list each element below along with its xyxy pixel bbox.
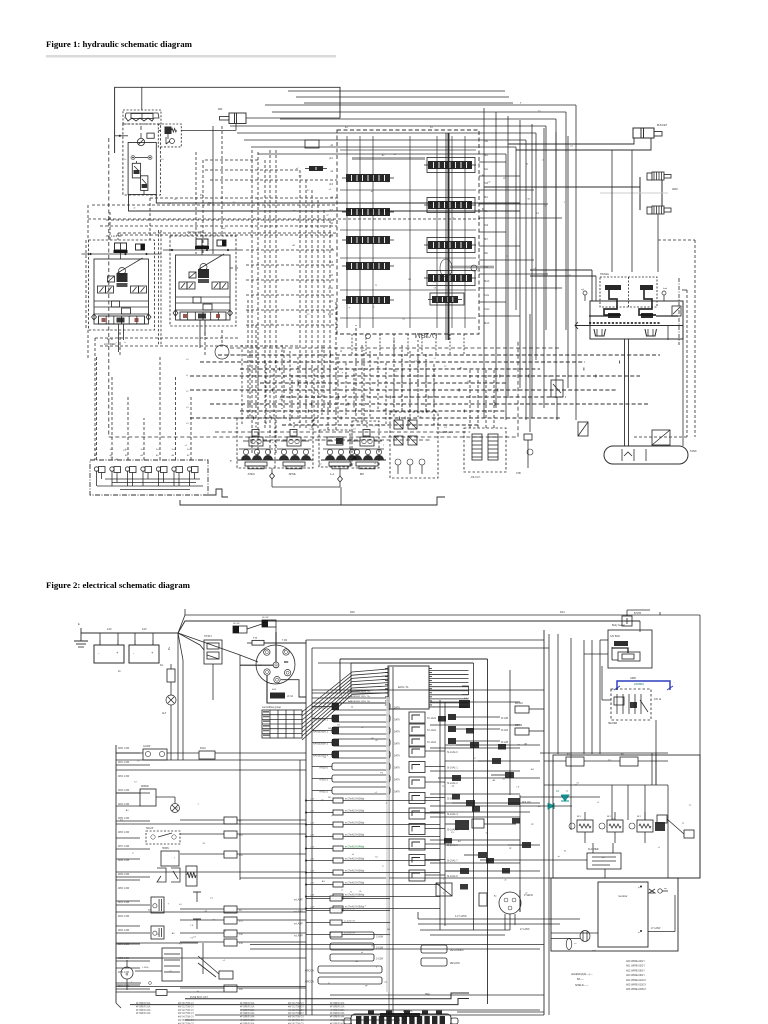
svg-text:JS1 1 to 8 BR: JS1 1 to 8 BR bbox=[106, 234, 122, 238]
svg-text:SLOW: SLOW bbox=[233, 623, 240, 625]
svg-text:#F BRKR 02A: #F BRKR 02A bbox=[240, 1009, 255, 1012]
svg-text:ARM: ARM bbox=[672, 188, 678, 191]
svg-text:AIRCON: AIRCON bbox=[305, 981, 315, 984]
svg-text:W01 1.0W: W01 1.0W bbox=[118, 761, 130, 764]
svg-text:Pa12: Pa12 bbox=[484, 309, 490, 311]
svg-text:w-17mA2-5-01Wgr: w-17mA2-5-01Wgr bbox=[345, 810, 365, 813]
svg-text:W00 1.0W: W00 1.0W bbox=[118, 887, 130, 890]
svg-text:#F BRKR 05A: #F BRKR 05A bbox=[240, 1019, 255, 1022]
svg-text:AAASENSR 3: AAASENSR 3 bbox=[313, 743, 329, 746]
svg-text:W03 1.0W: W03 1.0W bbox=[118, 789, 130, 792]
svg-text:w-LAMP: w-LAMP bbox=[294, 935, 303, 938]
svg-text:DATA: DATA bbox=[394, 707, 400, 710]
svg-text:SY-1AA1: SY-1AA1 bbox=[427, 741, 437, 744]
svg-text:W01 1.0W: W01 1.0W bbox=[118, 901, 130, 904]
svg-text:w-LAMP: w-LAMP bbox=[294, 923, 303, 926]
svg-text:RLY: RLY bbox=[637, 816, 642, 818]
svg-text:C-00W: C-00W bbox=[376, 937, 384, 939]
svg-text:W09 1.0W: W09 1.0W bbox=[118, 873, 130, 876]
svg-text:W06 1.0W: W06 1.0W bbox=[118, 831, 130, 834]
svg-text:W-L2B: W-L2B bbox=[501, 742, 508, 744]
svg-text:ECU-7L: ECU-7L bbox=[398, 685, 409, 689]
svg-text:Pa0: Pa0 bbox=[484, 141, 489, 143]
svg-text:HORN: HORN bbox=[162, 848, 169, 850]
svg-text:#F BRKR 02A: #F BRKR 02A bbox=[136, 1009, 151, 1012]
svg-text:A11s: A11s bbox=[484, 294, 490, 297]
svg-text:B+: B+ bbox=[167, 646, 171, 650]
svg-text:controlflow group: controlflow group bbox=[262, 706, 282, 709]
svg-text:R16: R16 bbox=[350, 611, 355, 614]
svg-text:A00 WIRE-00GY: A00 WIRE-00GY bbox=[626, 960, 645, 963]
svg-text:w-17mA2-5-03Wgr: w-17mA2-5-03Wgr bbox=[345, 834, 365, 837]
svg-text:SY-1AA1: SY-1AA1 bbox=[427, 729, 437, 732]
svg-text:#W 01.75W GY: #W 01.75W GY bbox=[288, 1006, 304, 1008]
svg-text:pb13: pb13 bbox=[328, 314, 334, 316]
svg-text:BUCKET: BUCKET bbox=[657, 124, 668, 127]
svg-text:dr: dr bbox=[134, 206, 136, 209]
svg-text:B/L----: B/L---- bbox=[577, 978, 584, 981]
svg-text:12V 5kW: 12V 5kW bbox=[610, 635, 620, 638]
svg-text:#F BRKR 03A: #F BRKR 03A bbox=[240, 1012, 255, 1015]
svg-text:CHK: CHK bbox=[516, 472, 521, 475]
svg-text:Hkpi: Hkpi bbox=[425, 993, 430, 996]
svg-text:W04 1.0W: W04 1.0W bbox=[118, 943, 130, 946]
svg-text:W-L0B: W-L0B bbox=[501, 718, 508, 720]
svg-text:E: E bbox=[78, 622, 80, 626]
svg-text:2A686A: 2A686A bbox=[634, 682, 644, 686]
svg-text:W-L1B: W-L1B bbox=[501, 730, 508, 732]
svg-text:w-17mA2-5-00Wgr: w-17mA2-5-00Wgr bbox=[345, 798, 365, 801]
svg-text:monitor: monitor bbox=[618, 894, 627, 898]
svg-text:A03 WIRE-09GY: A03 WIRE-09GY bbox=[626, 974, 645, 977]
svg-text:TANK: TANK bbox=[690, 449, 697, 453]
svg-text:DATA: DATA bbox=[394, 731, 400, 734]
svg-text:R14: R14 bbox=[560, 611, 565, 614]
svg-text:dr: dr bbox=[373, 306, 375, 309]
svg-text:AAASENSR 2: AAASENSR 2 bbox=[313, 731, 329, 734]
svg-text:w-LAMP: w-LAMP bbox=[294, 899, 303, 902]
svg-text:AAASENSR 1422r 75c: AAASENSR 1422r 75c bbox=[348, 700, 371, 703]
svg-text:xx-00W-GY: xx-00W-GY bbox=[344, 897, 356, 899]
svg-text:AAASENSR 1: AAASENSR 1 bbox=[313, 719, 329, 722]
svg-text:AAASENSR 1421r 75c: AAASENSR 1421r 75c bbox=[348, 695, 371, 698]
svg-text:#F BRKR 01A: #F BRKR 01A bbox=[240, 1005, 255, 1008]
svg-text:Pa6: Pa6 bbox=[484, 225, 489, 227]
svg-text:Figure 2: electrical schematic: Figure 2: electrical schematic diagram bbox=[46, 580, 191, 590]
svg-text:W00 1.0W: W00 1.0W bbox=[118, 747, 130, 750]
svg-text:DATA: DATA bbox=[394, 755, 400, 758]
svg-text:w-17mA2-5-05Wgr: w-17mA2-5-05Wgr bbox=[345, 858, 365, 861]
svg-text:AAASENSR 1420r 75c: AAASENSR 1420r 75c bbox=[348, 690, 371, 693]
svg-text:DATA: DATA bbox=[394, 779, 400, 782]
svg-text:#F BRKR 00A: #F BRKR 00A bbox=[240, 1002, 255, 1005]
svg-text:A05 WIRE-015GY: A05 WIRE-015GY bbox=[626, 984, 647, 987]
svg-text:-OIL FLT-: -OIL FLT- bbox=[470, 476, 481, 479]
svg-text:WIPER: WIPER bbox=[141, 786, 149, 788]
svg-text:ATB/2-0: ATB/2-0 bbox=[319, 767, 328, 770]
svg-text:SI-1AA1-8: SI-1AA1-8 bbox=[447, 875, 458, 878]
svg-text:#W 01.75W GY: #W 01.75W GY bbox=[178, 1006, 194, 1008]
svg-text:#W 00.75W GY: #W 00.75W GY bbox=[288, 1003, 304, 1005]
svg-text:dr: dr bbox=[558, 855, 560, 858]
svg-text:SHIELD------: SHIELD------ bbox=[575, 984, 589, 987]
svg-text:A01 WIRE-03GY: A01 WIRE-03GY bbox=[626, 965, 645, 968]
svg-text:ATB/2-2: ATB/2-2 bbox=[319, 791, 328, 794]
svg-text:LOCKER: LOCKER bbox=[104, 342, 116, 346]
svg-text:#F BRKR 01A: #F BRKR 01A bbox=[136, 1005, 151, 1008]
svg-text:RLY: RLY bbox=[607, 816, 612, 818]
svg-text:ffsM: ffsM bbox=[272, 689, 276, 691]
svg-text:W05 1.0W: W05 1.0W bbox=[118, 957, 130, 960]
svg-text:W02 1.0W: W02 1.0W bbox=[118, 775, 130, 778]
svg-text:EA-0: EA-0 bbox=[464, 697, 470, 700]
svg-text:SI-1AA1-1: SI-1AA1-1 bbox=[447, 767, 458, 770]
svg-text:W02 1.0W: W02 1.0W bbox=[118, 915, 130, 918]
svg-text:#W 02.75W GY: #W 02.75W GY bbox=[288, 1010, 304, 1012]
svg-text:W08 1.0W: W08 1.0W bbox=[118, 859, 130, 862]
svg-text:LEGEND(A)#(----)---: LEGEND(A)#(----)--- bbox=[571, 973, 593, 976]
svg-text:xF 0A: xF 0A bbox=[287, 695, 293, 698]
svg-text:TRAVEL: TRAVEL bbox=[600, 273, 610, 276]
svg-text:FTA: FTA bbox=[253, 637, 258, 640]
svg-text:RLY: RLY bbox=[577, 816, 582, 818]
svg-text:pb11: pb11 bbox=[328, 288, 334, 290]
svg-text:AAASENSR 4: AAASENSR 4 bbox=[313, 755, 329, 758]
svg-text:GLOW: GLOW bbox=[143, 745, 151, 748]
svg-text:#W 05.75W GY: #W 05.75W GY bbox=[288, 1020, 304, 1022]
svg-text:w-17mA2-5-07Wgr: w-17mA2-5-07Wgr bbox=[345, 882, 365, 885]
svg-text:#W 03.75W GY: #W 03.75W GY bbox=[288, 1013, 304, 1015]
svg-text:C-02W: C-02W bbox=[376, 959, 384, 961]
svg-text:#F BRKR 03A: #F BRKR 03A bbox=[136, 1012, 151, 1015]
svg-text:FUSE BOX LIST: FUSE BOX LIST bbox=[190, 996, 208, 999]
svg-text:#W 04.75W GY: #W 04.75W GY bbox=[178, 1017, 194, 1019]
svg-text:SI-1AA1-6: SI-1AA1-6 bbox=[447, 844, 458, 847]
svg-text:W15A4: W15A4 bbox=[515, 702, 523, 705]
svg-text:BM: BM bbox=[360, 473, 364, 476]
svg-text:SY-1AA1: SY-1AA1 bbox=[427, 717, 437, 720]
svg-text:ALT: ALT bbox=[162, 712, 167, 715]
svg-text:w-17mA2-5-06Wgr: w-17mA2-5-06Wgr bbox=[345, 870, 365, 873]
svg-text:W07 1.0W: W07 1.0W bbox=[118, 845, 130, 848]
svg-text:B.STR: B.STR bbox=[634, 612, 641, 615]
svg-text:T.1M: T.1M bbox=[282, 640, 287, 642]
svg-text:dr: dr bbox=[361, 951, 363, 954]
svg-text:SI-1AA1-0: SI-1AA1-0 bbox=[447, 751, 458, 754]
svg-text:dr: dr bbox=[340, 350, 342, 353]
svg-text:#W 04.75W GY: #W 04.75W GY bbox=[288, 1017, 304, 1019]
svg-text:-SHSE: -SHSE bbox=[288, 473, 296, 476]
svg-text:1+L: 1+L bbox=[330, 473, 335, 476]
svg-text:DATA: DATA bbox=[394, 743, 400, 746]
svg-text:W04 1.0W: W04 1.0W bbox=[118, 803, 130, 806]
svg-text:12V: 12V bbox=[142, 627, 147, 631]
svg-text:w-LAMP: w-LAMP bbox=[294, 911, 303, 914]
svg-text:SI-1AA1-4: SI-1AA1-4 bbox=[447, 813, 458, 816]
svg-text:#F BRKR 00A: #F BRKR 00A bbox=[330, 1002, 345, 1005]
svg-text:P-SENS: P-SENS bbox=[524, 894, 533, 897]
svg-text:Bk10: Bk10 bbox=[484, 281, 490, 283]
svg-text:ST RLY: ST RLY bbox=[204, 635, 213, 638]
svg-text:F-27.1A5W: F-27.1A5W bbox=[455, 915, 467, 918]
svg-text:F01A: F01A bbox=[200, 747, 206, 750]
svg-text:dr: dr bbox=[197, 990, 199, 993]
svg-text:Pa9: Pa9 bbox=[484, 267, 489, 269]
svg-text:SI-1AA1-7: SI-1AA1-7 bbox=[447, 860, 458, 863]
svg-text:A06 WIRE-018GY: A06 WIRE-018GY bbox=[626, 988, 647, 991]
svg-text:xx-03W-GY: xx-03W-GY bbox=[344, 933, 356, 935]
svg-text:HEATER: HEATER bbox=[608, 722, 617, 725]
svg-text:dr: dr bbox=[505, 879, 507, 882]
svg-text:AAASENSR 0: AAASENSR 0 bbox=[313, 707, 329, 710]
svg-text:FLASHER: FLASHER bbox=[588, 848, 599, 851]
svg-text:W03 1.0W: W03 1.0W bbox=[118, 929, 130, 932]
svg-text:#F BRKR 04A: #F BRKR 04A bbox=[330, 1016, 345, 1019]
svg-text:w-17mA2-5-04Wgr: w-17mA2-5-04Wgr bbox=[345, 846, 365, 849]
svg-text:xx-02W-GY: xx-02W-GY bbox=[344, 921, 356, 923]
svg-text:SW-2P: SW-2P bbox=[146, 828, 154, 830]
svg-text:DATA: DATA bbox=[394, 719, 400, 722]
svg-text:haul: haul bbox=[663, 288, 668, 290]
svg-text:12V: 12V bbox=[107, 627, 112, 631]
svg-text:24V 1k: 24V 1k bbox=[654, 699, 662, 701]
svg-text:M: M bbox=[126, 973, 129, 977]
svg-text:#W 05.75W GY: #W 05.75W GY bbox=[178, 1020, 194, 1022]
svg-text:MW: MW bbox=[218, 108, 223, 111]
svg-text:27.1A5W: 27.1A5W bbox=[520, 928, 530, 931]
svg-text:1.5M4j: 1.5M4j bbox=[142, 967, 149, 969]
svg-text:xx-01W-GY: xx-01W-GY bbox=[344, 909, 356, 911]
svg-text:#F BRKR 05A: #F BRKR 05A bbox=[330, 1019, 345, 1022]
svg-text:#W 02.75W GY: #W 02.75W GY bbox=[178, 1010, 194, 1012]
svg-text:NOI 12V: NOI 12V bbox=[522, 802, 531, 804]
svg-text:RES-D66: RES-D66 bbox=[450, 963, 460, 965]
svg-text:A04 WIRE-012GY: A04 WIRE-012GY bbox=[626, 979, 647, 982]
svg-text:GRID: GRID bbox=[630, 677, 636, 680]
svg-text:MM: MM bbox=[284, 660, 288, 664]
svg-text:Figure 1: hydraulic schematic: Figure 1: hydraulic schematic diagram bbox=[46, 39, 193, 49]
svg-text:#F BRKR 04A: #F BRKR 04A bbox=[240, 1016, 255, 1019]
svg-text:AIRCON: AIRCON bbox=[305, 970, 315, 973]
svg-text:#F BRKR 03A: #F BRKR 03A bbox=[330, 1012, 345, 1015]
svg-text:Body heater: Body heater bbox=[612, 624, 625, 627]
svg-text:ATB/2-1: ATB/2-1 bbox=[319, 779, 328, 782]
svg-text:SLOW: SLOW bbox=[262, 617, 269, 619]
svg-text:-STEN: -STEN bbox=[247, 473, 255, 476]
svg-text:#F BRKR 00A: #F BRKR 00A bbox=[136, 1002, 151, 1005]
svg-text:#W 00.75W GY: #W 00.75W GY bbox=[178, 1003, 194, 1005]
svg-text:DATA: DATA bbox=[394, 791, 400, 794]
svg-text:#W 03.75W GY: #W 03.75W GY bbox=[178, 1013, 194, 1015]
svg-text:27.1A5W: 27.1A5W bbox=[651, 927, 661, 930]
svg-text:dr: dr bbox=[371, 190, 373, 193]
svg-text:#F BRKR 02A: #F BRKR 02A bbox=[330, 1009, 345, 1012]
svg-text:m: m bbox=[638, 932, 640, 934]
svg-text:A02 WIRE-06GY: A02 WIRE-06GY bbox=[626, 969, 645, 972]
svg-text:RES-D66BAT: RES-D66BAT bbox=[450, 949, 465, 952]
svg-text:#F BRKR 01A: #F BRKR 01A bbox=[330, 1005, 345, 1008]
svg-text:w-17mA2-5-02Wgr: w-17mA2-5-02Wgr bbox=[345, 822, 365, 825]
svg-text:DATA: DATA bbox=[394, 767, 400, 770]
svg-text:W07 1.0W: W07 1.0W bbox=[118, 985, 130, 988]
svg-text:Bk13: Bk13 bbox=[484, 323, 490, 325]
